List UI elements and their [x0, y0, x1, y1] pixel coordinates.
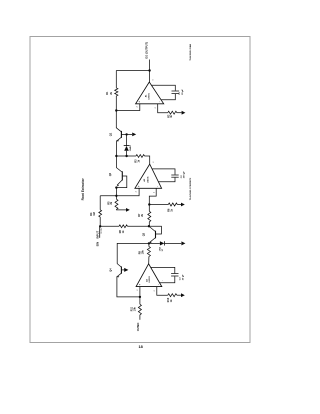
svg-text:3: 3: [136, 106, 138, 107]
node junction J7: [148, 203, 150, 205]
svg-text:1k: 1k: [137, 159, 140, 162]
svg-text:1k: 1k: [122, 230, 125, 233]
label figure id top: [189, 44, 192, 61]
svg-text:57: 57: [162, 248, 164, 251]
wire Q4 emitter rail: [117, 276, 140, 297]
node junction J11: [148, 242, 150, 244]
svg-text:6: 6: [153, 79, 155, 80]
wire J7 to R6: [149, 204, 168, 206]
svg-text:-: -: [161, 280, 164, 281]
svg-text:A3: A3: [145, 278, 148, 282]
svg-text:LM101: LM101: [149, 92, 151, 99]
svg-text:R1: R1: [106, 91, 109, 95]
terminal arrow T2: [132, 133, 136, 137]
wire R6 to arrow: [177, 204, 181, 206]
node junction J3: [125, 133, 127, 135]
svg-text:Root Extractor: Root Extractor: [81, 178, 85, 201]
terminal arrow T6: [124, 268, 128, 272]
wire R3 to U2 apex: [145, 156, 150, 164]
wire R10 to arrow: [177, 294, 181, 296]
terminal arrow T4: [126, 208, 130, 212]
label Root Extractor: [81, 178, 85, 201]
resistor R7: [138, 205, 151, 222]
svg-text:A2: A2: [143, 178, 146, 182]
resistor R1: [106, 88, 118, 96]
capacitor C3 feedback loop: [151, 267, 185, 282]
svg-text:Q4: Q4: [109, 268, 113, 272]
resistor R10: [167, 294, 177, 303]
wire down to R1: [115, 71, 117, 88]
terminal arrow T1: [182, 111, 186, 115]
svg-text:EO: EO: [136, 323, 140, 327]
svg-text:INPUT: INPUT: [95, 230, 99, 238]
svg-text:1N457: 1N457: [129, 144, 132, 151]
svg-text:300 pF: 300 pF: [184, 171, 186, 179]
node junction J6: [115, 195, 117, 197]
svg-text:1k: 1k: [170, 208, 173, 211]
wire input stub: [99, 226, 101, 238]
svg-text:2: 2: [155, 107, 157, 108]
wire R9 to U3 apex: [148, 257, 150, 264]
node junction J10: [99, 225, 101, 227]
svg-text:6: 6: [153, 162, 155, 163]
svg-text:0V-10V: 0V-10V: [101, 227, 103, 234]
wire U1 pin2 stub: [158, 104, 168, 113]
svg-text:+: +: [137, 185, 140, 187]
wire U3 pin2 stub: [157, 287, 168, 296]
wire U2 pin2 stub jog: [149, 188, 156, 204]
wire D1 to J4: [126, 151, 128, 156]
svg-text:A1: A1: [144, 94, 147, 98]
svg-text:Q3: Q3: [142, 232, 146, 236]
wire J3 to arrow: [127, 133, 132, 135]
node junction J1: [148, 69, 150, 71]
svg-text:TL/H/5645-17/B20M75: TL/H/5645-17/B20M75: [189, 177, 192, 200]
svg-text:+: +: [138, 283, 141, 285]
svg-text:LM101: LM101: [147, 176, 149, 183]
resistor R9: [139, 243, 151, 256]
wire R2 to arrow: [177, 112, 182, 114]
resistor R8: [119, 225, 127, 233]
node junction J12: [139, 296, 141, 298]
wire output stub: [149, 60, 151, 71]
wire R11 bottom stub: [139, 315, 141, 320]
svg-text:Q1: Q1: [109, 132, 113, 136]
svg-text:30 pF: 30 pF: [182, 274, 184, 280]
svg-text:LM101: LM101: [149, 275, 151, 282]
wire J8 to J6: [115, 188, 117, 196]
page border frame: [30, 37, 250, 343]
svg-text:-: -: [156, 186, 159, 187]
svg-text:2k: 2k: [110, 201, 113, 204]
resistor R11: [131, 297, 142, 315]
svg-text:C3: C3: [180, 277, 182, 281]
svg-text:1N4: 1N4: [158, 247, 161, 252]
wire J10 to R8: [100, 225, 119, 227]
wire J11 left rail: [117, 243, 149, 263]
svg-text:OUT: OUT: [136, 325, 140, 331]
svg-text:2: 2: [154, 192, 156, 193]
transistor Q2 diode-connected: [108, 156, 127, 188]
wire node row y156: [116, 155, 136, 157]
wire J2 down to Q1: [115, 111, 117, 129]
svg-text:TL/H/5645-31AB: TL/H/5645-31AB: [189, 44, 192, 61]
resistor R6: [168, 203, 178, 212]
diode D2: [158, 241, 164, 251]
svg-text:-: -: [158, 101, 161, 102]
wire Q1 emitter rail: [115, 140, 117, 156]
wire U2 pin3 stub: [100, 188, 139, 196]
node junction J9: [148, 225, 150, 227]
wire J3 to D1: [126, 134, 128, 145]
svg-text:+: +: [138, 101, 141, 103]
capacitor C2 feedback loop: [152, 169, 186, 182]
svg-text:2k: 2k: [110, 91, 113, 94]
node EO terminal label: [136, 323, 140, 332]
op-amp U3: [136, 264, 164, 292]
wire R4 to J10: [99, 217, 101, 226]
svg-text:2: 2: [154, 290, 156, 291]
svg-text:C2: C2: [181, 175, 183, 179]
svg-text:3: 3: [137, 290, 139, 291]
svg-text:1k: 1k: [170, 299, 173, 302]
transistor Q4: [109, 264, 125, 278]
wire R7 to J9: [148, 222, 150, 226]
node INPUT terminal label: [95, 227, 103, 246]
transistor Q3 diode-connected: [142, 226, 162, 243]
resistor R2: [167, 111, 177, 118]
label figure id middle: [189, 177, 192, 200]
op-amp U1: [136, 71, 164, 109]
wire R1 to J2: [115, 96, 117, 111]
node junction J4: [125, 155, 127, 157]
wire U3 pin3 stub: [139, 287, 141, 297]
transistor Q1: [109, 128, 127, 142]
resistor R5: [107, 196, 118, 210]
node OUTPUT terminal label: [144, 42, 148, 59]
wire R5 to arrow: [117, 208, 127, 211]
svg-text:10k: 10k: [141, 250, 144, 255]
svg-text:1k: 1k: [170, 114, 173, 117]
wire J1 to feedback rail: [116, 70, 149, 72]
node junction J2: [115, 109, 117, 111]
label page number: [139, 345, 143, 349]
node junction J5: [115, 155, 117, 157]
wire R8 to J9: [128, 225, 149, 227]
svg-text:Q2: Q2: [108, 172, 112, 176]
svg-text:30 pF: 30 pF: [182, 89, 184, 95]
node junction J8: [115, 186, 117, 188]
resistor R3: [135, 155, 145, 163]
terminal arrow T5: [181, 241, 185, 245]
diode D1: [124, 144, 133, 151]
svg-text:EIN: EIN: [95, 242, 99, 246]
svg-text:18: 18: [139, 345, 143, 349]
wire U1 pin3 stub: [116, 104, 140, 111]
wire J11 to D2: [149, 242, 160, 244]
wire D2 to arrow: [165, 242, 182, 244]
terminal arrow T7: [181, 293, 185, 297]
svg-text:3: 3: [136, 191, 138, 192]
terminal arrow T3: [181, 203, 185, 207]
svg-text:-: -: [157, 284, 160, 285]
svg-text:EO (OUTPUT): EO (OUTPUT): [144, 42, 148, 59]
svg-text:C1: C1: [179, 91, 181, 95]
svg-text:2k: 2k: [141, 213, 144, 216]
svg-text:1M: 1M: [93, 212, 96, 215]
capacitor C1 feedback loop: [152, 85, 184, 100]
resistor R4: [90, 196, 101, 217]
svg-text:10k: 10k: [133, 306, 136, 311]
op-amp U2: [135, 162, 162, 193]
